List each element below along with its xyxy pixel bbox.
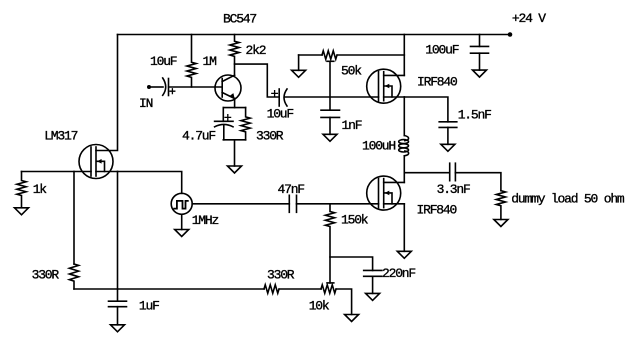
wire: adj node down to 330R bbox=[73, 172, 75, 265]
svg-text:1MHz: 1MHz bbox=[192, 213, 219, 228]
capacitor 220nF bbox=[364, 270, 382, 293]
capacitor 47nF bbox=[289, 195, 296, 212]
wiper T-bar on 10k bbox=[327, 282, 334, 284]
resistor dummy load 50 ohm bbox=[496, 191, 505, 220]
wiper of 50k with T-bar bbox=[327, 61, 334, 110]
capacitor 1uF bbox=[109, 301, 127, 325]
wire: IN to cap bbox=[150, 86, 164, 88]
svg-text:BC547: BC547 bbox=[223, 12, 256, 27]
capacitor 1.5nF bbox=[439, 122, 457, 145]
ground (below 1nF) bbox=[323, 134, 337, 141]
capacitor 4.7uF with resistor 330R (parallel box) bbox=[215, 108, 251, 140]
svg-text:1nF: 1nF bbox=[342, 118, 362, 133]
wire: branch to 220nF bbox=[330, 257, 373, 270]
svg-text:330R: 330R bbox=[267, 267, 295, 282]
wire: collector node to output cap bbox=[235, 64, 280, 97]
svg-text:330R: 330R bbox=[256, 129, 284, 144]
wire: 10k right lead to ground bbox=[336, 289, 351, 315]
ground (below 1uF) bbox=[111, 325, 125, 332]
wire: rail down to LM317 input bbox=[96, 35, 118, 151]
svg-text:100uH: 100uH bbox=[362, 138, 395, 153]
wire: source node to 1.5nF bbox=[404, 97, 448, 122]
wire: 3.3nF to dummy load bbox=[455, 173, 501, 191]
svg-text:50k: 50k bbox=[341, 64, 362, 79]
svg-text:10uF: 10uF bbox=[267, 107, 294, 122]
svg-text:2k2: 2k2 bbox=[246, 43, 266, 58]
potentiometer 50k bbox=[299, 51, 405, 71]
wire: upper source node bbox=[403, 97, 405, 136]
svg-text:dummy load 50 ohm: dummy load 50 ohm bbox=[511, 192, 625, 207]
svg-text:10k: 10k bbox=[309, 299, 330, 314]
capacitor 100uF bbox=[471, 35, 489, 71]
svg-text:4.7uF: 4.7uF bbox=[182, 129, 215, 144]
wire: bottom rail bbox=[74, 288, 264, 290]
ground (below 220nF) bbox=[366, 293, 380, 300]
potentiometer 10k bbox=[321, 285, 336, 293]
svg-text:220nF: 220nF bbox=[382, 266, 415, 281]
MOSFET lower IRF840 bbox=[367, 176, 405, 210]
label: + (input cap) bbox=[170, 89, 175, 94]
ground (below 10k) bbox=[345, 315, 359, 322]
resistor 1k bbox=[17, 172, 26, 208]
svg-text:1uF: 1uF bbox=[139, 299, 159, 314]
wire: lower source to ground bbox=[403, 204, 405, 252]
wire: gate line of lower IRF840 bbox=[297, 203, 379, 205]
ground (below 100uF) bbox=[473, 70, 487, 77]
ground (50k left) bbox=[292, 70, 306, 77]
label: + (4.7uF) bbox=[225, 115, 231, 121]
svg-text:IRF840: IRF840 bbox=[417, 75, 457, 90]
wire: upper drain to rail bbox=[403, 35, 405, 76]
inductor 100uH bbox=[399, 136, 409, 156]
ground (below dummy load) bbox=[494, 220, 508, 227]
wire: network to ground bbox=[234, 140, 236, 166]
capacitor 3.3nF bbox=[450, 163, 456, 181]
ground (below 1k) bbox=[15, 208, 29, 215]
svg-text:1k: 1k bbox=[33, 182, 48, 197]
regulator LM317 (MOSFET-style symbol) bbox=[79, 145, 118, 179]
svg-text:LM317: LM317 bbox=[44, 129, 77, 144]
svg-text:47nF: 47nF bbox=[278, 182, 305, 197]
svg-text:1.5nF: 1.5nF bbox=[458, 108, 491, 123]
wire: base line bbox=[169, 86, 223, 88]
resistor 330R (horizontal bottom) bbox=[264, 285, 279, 293]
wire: LM317 output line to oscillator bbox=[118, 172, 182, 194]
wire: oscillator output bbox=[192, 203, 289, 205]
wire: gate line of upper IRF840 bbox=[285, 96, 379, 98]
capacitor 1nF bbox=[321, 110, 340, 134]
capacitor 10uF (input, polarized) bbox=[163, 78, 169, 96]
wire: LM317 adj line left bbox=[22, 171, 92, 173]
svg-text:150k: 150k bbox=[341, 213, 369, 228]
resistor 150k bbox=[325, 204, 334, 283]
wire: bottom rail mid bbox=[279, 288, 321, 290]
svg-text:IRF840: IRF840 bbox=[417, 203, 457, 218]
ground (lower IRF840 source) bbox=[397, 251, 411, 258]
wire: +24V top rail bbox=[118, 34, 511, 36]
oscillator 1MHz bbox=[171, 193, 192, 214]
svg-text:3.3nF: 3.3nF bbox=[437, 182, 470, 197]
svg-text:IN: IN bbox=[139, 96, 153, 111]
svg-text:100uF: 100uF bbox=[425, 43, 458, 58]
ground (emitter network) bbox=[228, 166, 242, 173]
svg-text:+24 V: +24 V bbox=[512, 11, 546, 26]
label: + (output cap) bbox=[272, 91, 278, 97]
resistor 2k2 bbox=[230, 35, 239, 76]
svg-text:330R: 330R bbox=[32, 268, 60, 283]
wire: drain node to 3.3nF bbox=[404, 172, 449, 174]
resistor 1M bbox=[187, 35, 196, 88]
ground (below 1.5nF) bbox=[441, 144, 455, 151]
capacitor 10uF (output, polarized) bbox=[279, 89, 287, 106]
svg-text:1M: 1M bbox=[203, 54, 217, 69]
node: IN terminal dot bbox=[147, 85, 151, 89]
transistor Q1 BC547 bbox=[215, 75, 241, 101]
wire: inductor to lower drain bbox=[403, 156, 405, 183]
ground (below oscillator) bbox=[175, 230, 189, 237]
MOSFET upper IRF840 bbox=[367, 69, 405, 103]
resistor 330R (left vertical) bbox=[69, 264, 78, 289]
wire: emitter to RC network bbox=[234, 99, 236, 108]
svg-text:10uF: 10uF bbox=[150, 54, 177, 69]
node: +24V terminal dot bbox=[508, 32, 513, 37]
wire: oscillator to ground bbox=[181, 214, 183, 229]
wire: output node down to 1uF bbox=[117, 172, 119, 302]
